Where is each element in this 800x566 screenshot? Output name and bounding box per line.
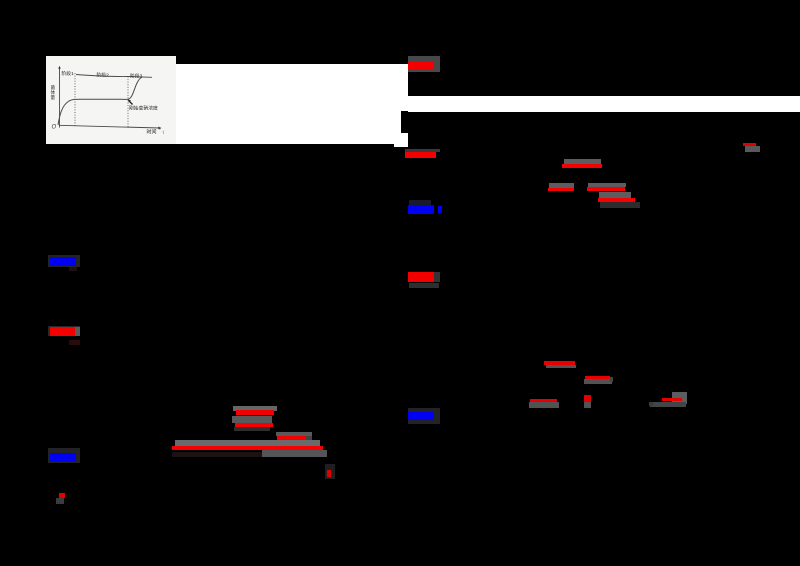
svg-text:O: O <box>52 125 57 131</box>
svg-text:量: 量 <box>51 94 56 101</box>
svg-text:时间: 时间 <box>147 129 157 136</box>
svg-text:阶段2: 阶段2 <box>97 72 110 79</box>
svg-text:阶段1: 阶段1 <box>62 70 75 77</box>
svg-text:·j: ·j <box>162 129 164 134</box>
svg-text:刚始变硝浓度: 刚始变硝浓度 <box>129 105 158 112</box>
